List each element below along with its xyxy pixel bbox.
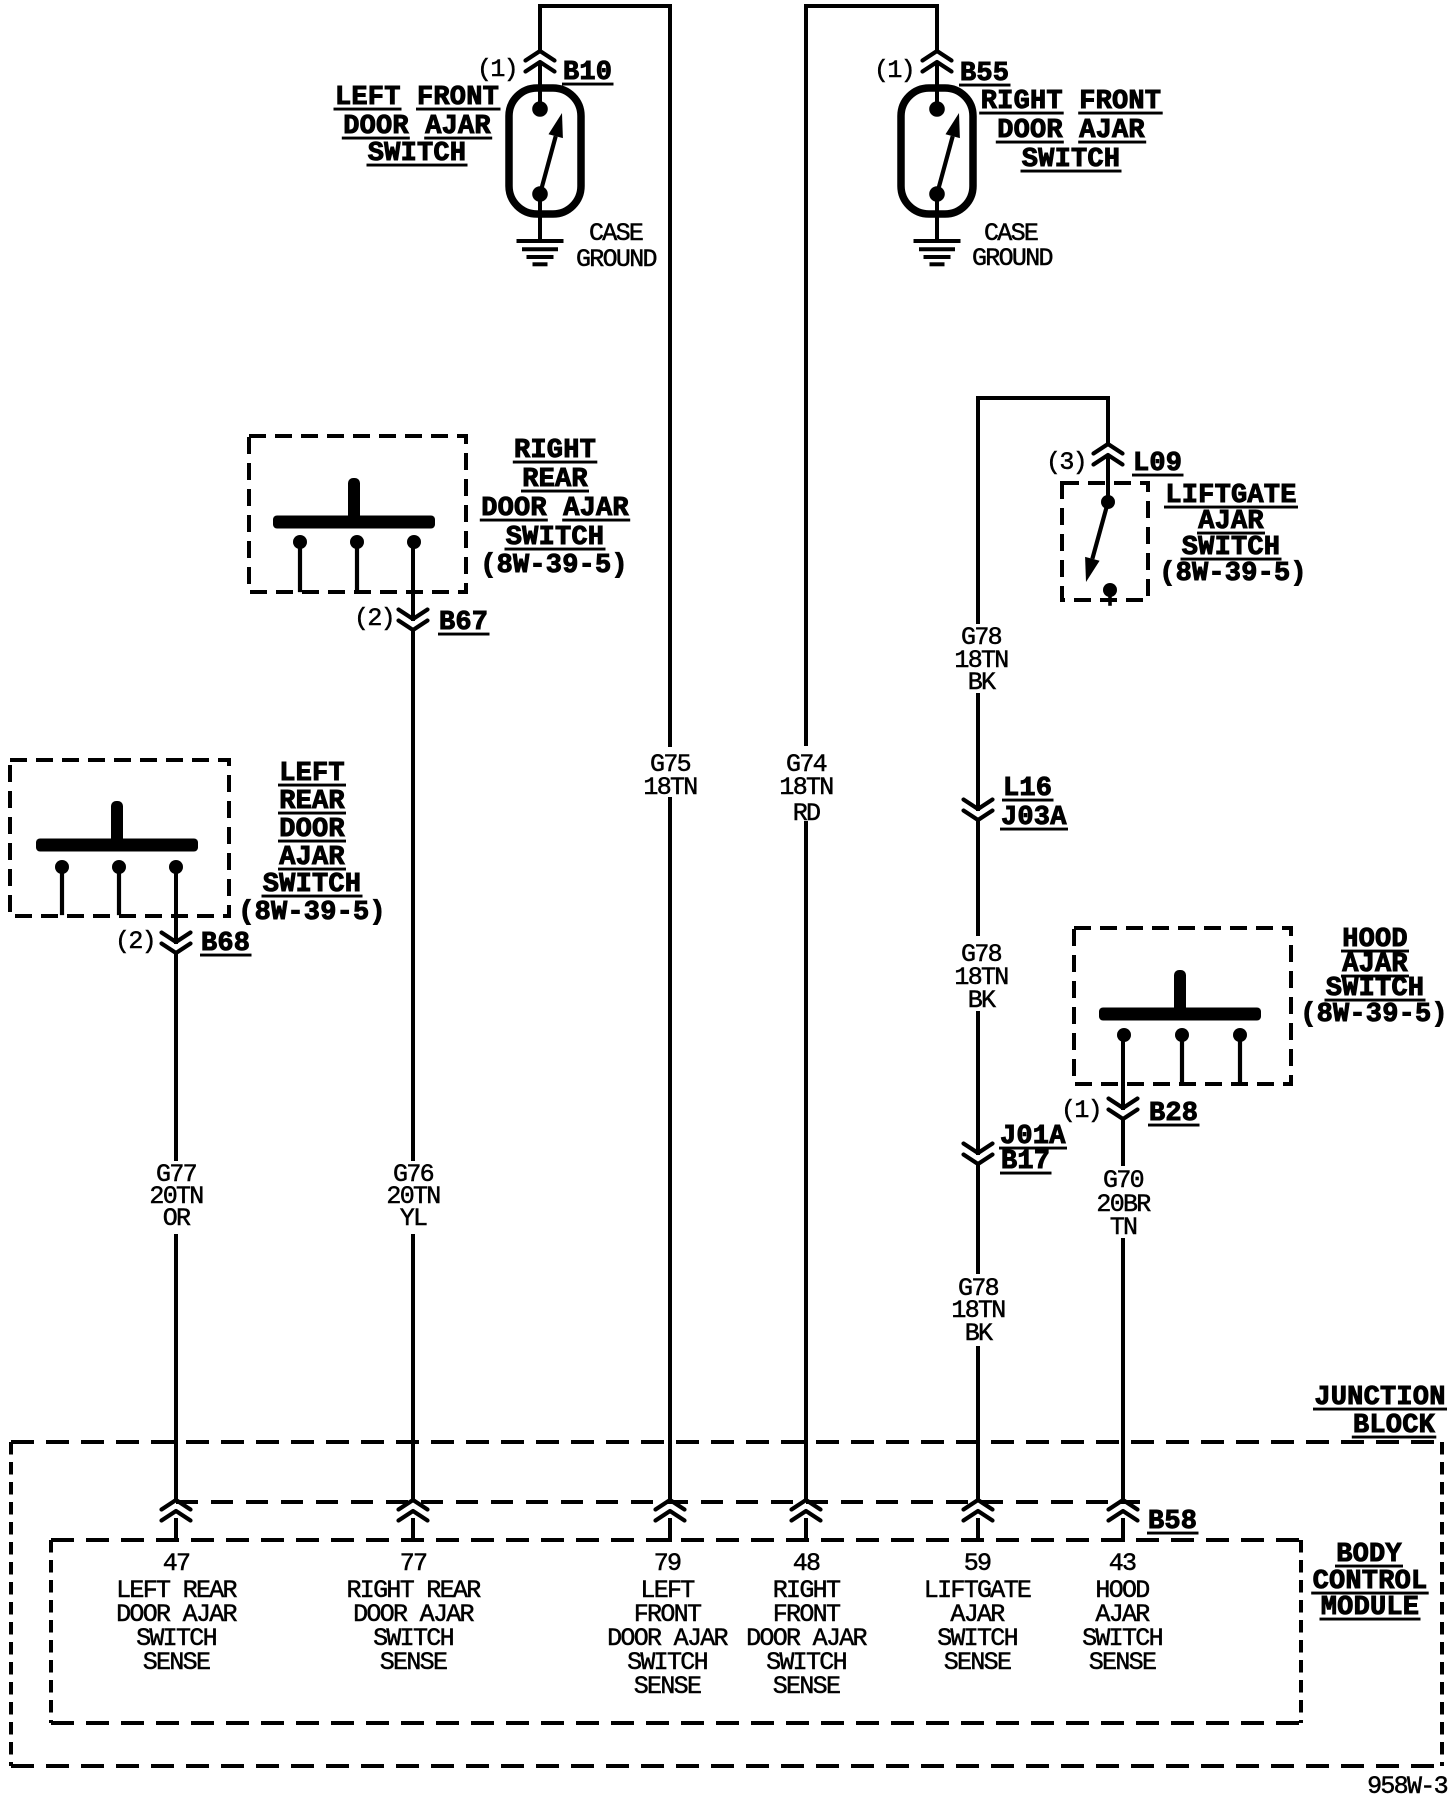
label (3) for L09	[1046, 448, 1086, 477]
right front door ajar switch bottom contact	[929, 186, 945, 202]
wire G78 to junction block	[976, 1348, 980, 1500]
svg-text:YL: YL	[400, 1204, 427, 1233]
connector L16 J03A inline connector symbol	[964, 800, 993, 821]
hood ajar switch pin 3	[1233, 1028, 1247, 1080]
wire G75 to junction block	[668, 799, 672, 1500]
pin 48 RIGHT FRONT DOOR AJAR SWITCH SENSE	[746, 1549, 867, 1701]
label B58	[1147, 1507, 1199, 1537]
label (1) for B55	[874, 56, 914, 85]
connector B58 chevron at G74 / pin 48	[792, 1500, 821, 1540]
svg-text:SENSE: SENSE	[380, 1648, 447, 1677]
wire from left front door ajar switch up and over to G75 drop	[540, 6, 670, 745]
label B10	[562, 58, 614, 88]
label B67	[438, 608, 490, 638]
case ground (left front switch)	[517, 241, 564, 264]
left rear door ajar switch pin 1	[55, 860, 69, 913]
connector B58 chevron at G70 / pin 43	[1109, 1500, 1138, 1540]
pin 43 HOOD AJAR SWITCH SENSE	[1082, 1549, 1163, 1677]
left rear door ajar switch plunger symbol	[36, 801, 198, 852]
wire label G74 18TN RD	[779, 750, 833, 828]
liftgate ajar switch dashed enclosure	[1062, 483, 1148, 600]
wire label G78 18TN BK (lower)	[951, 1274, 1005, 1348]
connector B58 chevron at G77 / pin 47	[162, 1500, 191, 1540]
svg-text:BK: BK	[968, 668, 996, 697]
wire label G76 20TN YL	[386, 1160, 440, 1233]
pin 47 LEFT REAR DOOR AJAR SWITCH SENSE	[116, 1549, 237, 1677]
svg-text:(1): (1)	[874, 56, 914, 85]
wire label G78 18TN BK (upper)	[954, 623, 1008, 697]
left rear door ajar switch dashed enclosure	[10, 760, 229, 916]
right front door ajar switch blade	[937, 113, 960, 194]
connector L09 (3) inline connector symbol	[1094, 444, 1123, 502]
label (1) for B10	[477, 55, 517, 84]
connector B58 chevron at G78 / pin 59	[964, 1500, 993, 1540]
right front door ajar switch top contact	[929, 101, 945, 117]
left front door ajar switch bottom contact	[532, 186, 548, 202]
label HOOD AJAR SWITCH (8W-39-5)	[1300, 925, 1448, 1030]
svg-text:SENSE: SENSE	[634, 1672, 701, 1701]
label BODY CONTROL MODULE	[1311, 1540, 1429, 1623]
label JUNCTION BLOCK	[1313, 1383, 1447, 1441]
svg-text:(1): (1)	[1061, 1096, 1101, 1125]
liftgate ajar switch bottom contact	[1103, 583, 1117, 604]
right rear door ajar switch pin 3	[407, 535, 421, 549]
label LEFT REAR DOOR AJAR SWITCH (8W-39-5)	[238, 759, 386, 928]
svg-text:(8W-39-5): (8W-39-5)	[480, 551, 628, 581]
connector B67 (2) inline connector symbol	[399, 610, 428, 631]
svg-text:(1): (1)	[477, 55, 517, 84]
svg-text:(8W-39-5): (8W-39-5)	[1159, 559, 1307, 589]
label (2) for B67	[354, 604, 394, 633]
wire left rear switch pin 3 to connector B68	[174, 875, 178, 942]
wire G70 to junction block	[1121, 1240, 1125, 1500]
label J01A B17	[999, 1122, 1067, 1177]
wire label G78 18TN BK (middle)	[954, 940, 1008, 1015]
right rear door ajar switch pin 2	[350, 535, 364, 590]
svg-text:(2): (2)	[115, 927, 155, 956]
label CASE GROUND (left)	[576, 219, 657, 274]
wire hood switch pin 1 to connector B28	[1121, 1043, 1125, 1108]
connector B10 (1) inline connector symbol	[526, 51, 555, 104]
wire label G70 20BR TN	[1096, 1166, 1151, 1242]
wire from right front door ajar switch up and over to G74 drop	[806, 6, 937, 744]
connector B68 (2) inline connector symbol	[162, 933, 191, 954]
pin 59 LIFTGATE AJAR SWITCH SENSE	[924, 1549, 1031, 1677]
case ground (right front switch)	[914, 241, 961, 264]
svg-text:(3): (3)	[1046, 448, 1086, 477]
left front door ajar switch blade	[540, 113, 563, 194]
svg-text:BK: BK	[965, 1319, 993, 1348]
wire left front switch to case ground	[538, 197, 542, 238]
svg-text:SENSE: SENSE	[143, 1648, 210, 1677]
wire G78 segment to connector L16/J03A	[976, 695, 980, 809]
svg-text:OR: OR	[163, 1204, 191, 1233]
label LIFTGATE AJAR SWITCH (8W-39-5)	[1159, 481, 1307, 589]
wire G76 upper segment	[411, 630, 415, 1159]
liftgate ajar switch top contact	[1101, 495, 1115, 509]
svg-text:(8W-39-5): (8W-39-5)	[238, 898, 386, 928]
svg-text:43: 43	[1109, 1549, 1136, 1578]
svg-text:BK: BK	[968, 986, 996, 1015]
svg-text:59: 59	[964, 1549, 991, 1578]
hood ajar switch plunger symbol	[1099, 970, 1261, 1021]
wire G78 segment to connector J01A/B17	[976, 1013, 980, 1153]
svg-text:48: 48	[793, 1549, 820, 1578]
svg-text:SENSE: SENSE	[944, 1648, 1011, 1677]
left front door ajar switch top contact	[532, 101, 548, 117]
right front door ajar switch body	[901, 88, 973, 214]
hood ajar switch pin 2	[1175, 1028, 1189, 1080]
body control module dashed enclosure	[51, 1540, 1301, 1723]
connector B58 chevron at G76 / pin 77	[399, 1500, 428, 1540]
svg-text:GROUND: GROUND	[972, 244, 1053, 273]
connector B55 (1) inline connector symbol	[923, 51, 952, 104]
right rear door ajar switch plunger symbol	[273, 478, 435, 529]
wire G78 lower segment	[976, 1164, 980, 1272]
wire G70 upper segment	[1121, 1119, 1125, 1164]
svg-text:(2): (2)	[354, 604, 394, 633]
label B55	[959, 59, 1011, 89]
label CASE GROUND (right)	[972, 219, 1053, 273]
svg-text:SENSE: SENSE	[773, 1672, 840, 1701]
junction block dashed enclosure	[11, 1442, 1442, 1766]
wire from liftgate ajar switch over to G78 drop	[978, 398, 1108, 622]
label (1) for B28	[1061, 1096, 1101, 1125]
svg-text:SENSE: SENSE	[1089, 1648, 1156, 1677]
hood ajar switch dashed enclosure	[1074, 928, 1291, 1084]
wire right rear switch pin 3 to connector B67	[411, 550, 415, 619]
left rear door ajar switch pin 3	[169, 860, 183, 874]
label RIGHT FRONT DOOR AJAR SWITCH	[979, 87, 1162, 175]
label L16 J03A	[1000, 774, 1068, 833]
liftgate ajar switch blade	[1085, 502, 1108, 582]
svg-text:77: 77	[400, 1549, 427, 1578]
svg-text:79: 79	[654, 1549, 681, 1578]
label B68	[200, 929, 252, 959]
wire label G75 18TN	[643, 750, 697, 802]
label LEFT FRONT DOOR AJAR SWITCH	[334, 83, 501, 169]
svg-text:47: 47	[163, 1549, 190, 1578]
label B28	[1148, 1099, 1200, 1129]
svg-text:958W-3: 958W-3	[1367, 1772, 1448, 1801]
wire G78 middle segment	[976, 820, 980, 934]
svg-text:CASE: CASE	[589, 219, 643, 248]
wire label G77 20TN OR	[149, 1160, 203, 1233]
connector J01A B17 inline connector symbol	[964, 1144, 993, 1165]
connector B28 (1) inline connector symbol	[1109, 1099, 1138, 1120]
wire G77 to junction block	[174, 1236, 178, 1500]
svg-text:TN: TN	[1110, 1213, 1137, 1242]
junction block internal dashed rail	[176, 1500, 1140, 1504]
wire G76 to junction block	[411, 1236, 415, 1500]
right rear door ajar switch dashed enclosure	[249, 436, 466, 592]
label (2) for B68	[115, 927, 155, 956]
wire G77 upper segment	[174, 953, 178, 1159]
svg-text:18TN: 18TN	[779, 773, 833, 802]
wire G74 to junction block	[804, 823, 808, 1500]
pin 77 RIGHT REAR DOOR AJAR SWITCH SENSE	[346, 1549, 481, 1677]
svg-text:(8W-39-5): (8W-39-5)	[1300, 1000, 1448, 1030]
label RIGHT REAR DOOR AJAR SWITCH (8W-39-5)	[480, 436, 630, 581]
sheet number 958W-3	[1367, 1772, 1448, 1801]
wire right front switch to case ground	[935, 197, 939, 238]
label L09	[1132, 449, 1184, 479]
left front door ajar switch body	[509, 88, 581, 214]
pin 79 LEFT FRONT DOOR AJAR SWITCH SENSE	[607, 1549, 728, 1701]
hood ajar switch pin 1	[1117, 1028, 1131, 1042]
svg-text:GROUND: GROUND	[576, 245, 657, 274]
connector B58 chevron at G75 / pin 79	[656, 1500, 685, 1540]
left rear door ajar switch pin 2	[112, 860, 126, 913]
right rear door ajar switch pin 1	[293, 535, 307, 590]
